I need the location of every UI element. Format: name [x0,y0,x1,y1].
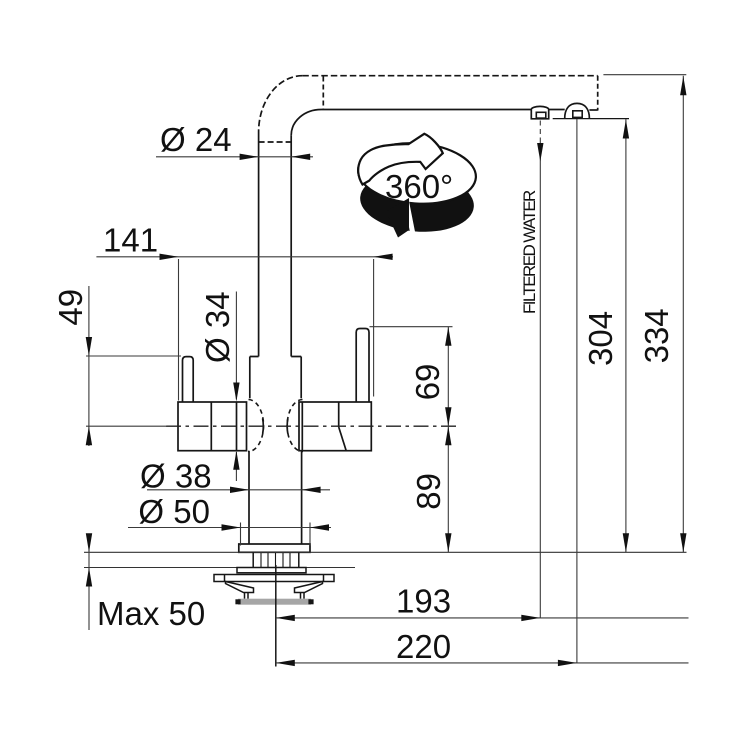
lower body left edge [248,451,250,544]
body right edge [300,357,302,399]
dim Ø34 lower tail [235,452,237,481]
dim 220 line [276,662,689,664]
arrow Ø38 left [230,487,249,493]
arrow 89 bottom [445,533,451,552]
filtered outlet leader line [539,142,541,618]
arrow 49 bottom [86,426,92,445]
arrow 334 bottom [680,533,686,552]
lower body right edge [301,451,303,544]
dim 69/89 line [447,327,449,553]
threaded shank [253,552,299,567]
base flange [239,544,310,552]
svg-text:49: 49 [52,289,89,326]
left handle block [178,402,247,451]
thread lines [261,553,290,572]
dim Ø50 tick right [309,523,311,546]
step shoulders at top of body [250,356,301,358]
svg-text:334: 334 [638,308,675,363]
icon black bottom band [358,168,477,237]
arrow 220 right [558,660,577,666]
dim Ø38 line [147,489,330,491]
arrow 193 left [276,615,295,621]
filtered outlet leader dashed [539,121,541,143]
dim 334 ext top [603,74,686,76]
arrow Ø24 left [240,154,259,160]
filtered outlet slot [536,112,546,118]
LEFT HANDLE [178,357,247,451]
right lever bar [356,329,369,403]
dim 193 line [276,617,689,619]
dim 49 ext bottom [86,425,167,427]
spout bend-to-riser transition (dashed) [259,141,292,143]
left handle collar line A [210,402,212,451]
riser tube left edge [258,132,260,357]
dim 304 line [625,119,627,552]
dim 69 ext top [370,326,453,328]
arrow Max50 down [86,533,92,552]
filtered water outlet (small cap) [531,106,548,118]
clamp plate notch right [323,575,325,582]
arrow Ø34 down [233,383,239,402]
icon swirl arrow [358,134,443,185]
DIMENSION GRAPHICS [86,75,689,663]
spout underside segments [321,109,531,111]
arrow 89 top [445,426,451,445]
arrow 220 left [276,660,295,666]
main outlet ext line [576,119,578,663]
arrow Ø24 right [291,154,310,160]
spout right end edge (dashed) [597,76,599,111]
main aerator dome [565,103,590,118]
dim 49 ext top [86,355,181,357]
svg-text:Ø 24: Ø 24 [160,121,232,158]
dim Max50 line [88,535,90,631]
arrow 193 right [521,615,540,621]
svg-text:141: 141 [103,222,158,259]
right handle inner edge line [301,402,303,451]
svg-text:193: 193 [396,583,451,620]
clamp plate notch left [224,575,226,582]
spout bend transition (dashed vertical) [322,77,324,110]
dim Ø24 line [156,156,313,158]
right handle collar line [338,402,340,427]
LOWER BODY [239,451,310,553]
arrow 69 bottom [445,407,451,426]
arrow Ø34 up [233,451,239,470]
arrow Ø50 right [310,524,329,530]
neck waist left (solid bit) [262,419,265,434]
riser tube right edge [290,135,292,356]
dim 141 ext right [373,259,375,397]
arrow 304 bottom [623,533,629,552]
SPOUT [259,76,629,357]
svg-text:Max 50: Max 50 [97,595,205,632]
svg-text:360°: 360° [385,168,453,205]
svg-text:220: 220 [396,628,451,665]
ARROWHEADS [86,76,687,666]
clamp plate [214,575,334,582]
360 ROTATION ICON [356,134,478,238]
spout bend outer arc (dashed) [259,76,303,132]
arrow 141 right [374,254,393,260]
center stud line [275,565,277,667]
arrow 69 top [445,327,451,346]
dim 49 line [88,286,90,446]
arrow 141 left [160,254,179,260]
neck hidden curve right (dashed) [287,400,303,452]
dim 141 line [96,256,393,258]
dim Ø34 leader [235,292,237,400]
lower gray nut bar [238,599,311,605]
clamp leg left [245,593,249,599]
arrow Ø38 right [302,487,321,493]
dim 334 line [682,76,684,553]
arrow Max50 up [86,568,92,587]
arrow 304 top [623,120,629,139]
left lever bar [183,357,194,402]
dim 141 ext left [178,259,180,401]
left handle collar line B [236,402,238,451]
neck waist right (solid bit) [286,419,289,434]
svg-text:89: 89 [410,473,447,510]
svg-text:Ø 50: Ø 50 [138,493,210,530]
clamp leg right [301,593,305,599]
arrow filtered-water down [537,143,543,162]
svg-text:Ø 34: Ø 34 [199,291,236,363]
arrow 334 top [680,76,686,95]
body left edge [249,357,251,399]
spout top edge (dashed) [302,75,597,77]
countertop underside line [84,567,355,569]
spout bend inner arc [291,110,321,136]
icon band end slash [407,202,414,238]
main aerator slot [573,111,582,118]
clamp wedge left [226,582,254,593]
neck hidden curve left (dashed) [248,400,264,452]
icon disc face [356,139,478,207]
dim Ø50 tick left [240,523,242,546]
svg-text:304: 304 [582,311,619,366]
arrow 49 top [86,337,92,356]
RIGHT HANDLE [299,329,371,451]
arrow Ø50 left [222,524,241,530]
handle centerline (dash-dot) [166,425,456,427]
nut bar left end cap [235,599,240,604]
svg-text:Ø 38: Ø 38 [140,458,212,495]
svg-text:69: 69 [409,364,446,401]
UNDER-COUNTER FIXING [214,552,334,598]
washer [237,568,306,573]
nut bar right end cap [308,599,313,604]
right handle collar diagonal [339,427,347,451]
svg-text:FILTERED WATER: FILTERED WATER [520,190,539,314]
dim Ø50 line [128,527,331,529]
spray head shelf line [553,118,629,120]
BODY / Ø34 SECTION [248,357,303,452]
icon black arrowhead [386,198,409,238]
countertop surface line [84,551,687,553]
right handle block [299,402,371,451]
clamp wedge right [295,582,323,593]
